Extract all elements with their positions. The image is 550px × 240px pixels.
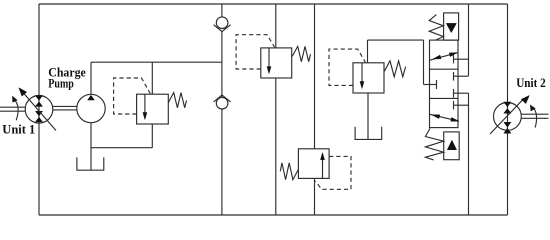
rotation arrow on Unit 1 shaft xyxy=(15,100,19,121)
wire: R4 inlet from DCV left port xyxy=(367,40,369,63)
svg-text:Unit 2: Unit 2 xyxy=(516,75,546,90)
spring of R1 xyxy=(168,93,186,108)
wire: charge pump outlet up xyxy=(90,62,92,94)
wire: R3 inlet from top loop line xyxy=(314,4,316,149)
pilot line of R1 (dashed) xyxy=(114,78,151,114)
DCV port T-stub S1 right xyxy=(453,55,455,64)
rotation arrow on Unit 2 shaft xyxy=(533,107,537,127)
wire: DCV port B down to bottom loop line xyxy=(468,93,470,215)
charge pump (fixed displacement) xyxy=(77,94,105,122)
pump/motor Unit 2 (variable displacement, on right loop line) xyxy=(494,103,522,131)
wire: main loop bottom line (return line) xyxy=(39,214,508,216)
DCV right port stub A xyxy=(453,72,455,81)
relief valve R4 body (shuttle relief) xyxy=(353,63,384,93)
spring of R2 xyxy=(292,46,310,61)
DCV bottom spring xyxy=(425,128,443,160)
spring of R4 xyxy=(384,61,405,77)
wire: charge line horizontal (pump outlet to check valves) xyxy=(91,61,222,63)
pilot line of R2 (dashed) xyxy=(236,35,275,69)
DCV position divider 2 xyxy=(430,97,459,99)
svg-text:Unit 1: Unit 1 xyxy=(2,122,35,137)
pump/motor Unit 1 (variable displacement, on left loop line) xyxy=(25,96,53,124)
wire: make-up check line vertical segments xyxy=(221,4,223,17)
relief valve R1 body (charge pump relief) xyxy=(137,94,169,124)
pilot line of R3 (dashed) xyxy=(315,156,351,189)
DCV body outline xyxy=(430,40,459,128)
wire: R4 outlet down to tank xyxy=(367,93,369,139)
tank T2 (R4 drain reservoir) xyxy=(355,127,382,140)
DCV position divider 1 xyxy=(430,68,459,70)
DCV top position flow arrow (double headed) xyxy=(430,53,458,61)
DCV top solenoid with down triangle xyxy=(444,13,459,40)
wire: relief R1 drain horizontal to suction xyxy=(91,147,152,149)
wire: R2 inlet from top loop line xyxy=(275,4,277,48)
relief valve R2 body (cross-port relief A) xyxy=(261,48,292,78)
wire: main loop right line (through Unit 2) xyxy=(507,4,509,215)
DCV right port stub B xyxy=(453,89,455,98)
shaft line of Unit 1 (double line to left edge) xyxy=(0,106,25,108)
check valve CV2 (to bottom loop line) xyxy=(216,97,228,109)
wire: main loop left line (through Unit 1) xyxy=(38,4,40,215)
check valve CV1 (to top loop line) xyxy=(216,17,228,29)
wire: R2 outlet to bottom loop line xyxy=(275,78,277,215)
relief valve R3 body (cross-port relief B) xyxy=(298,149,329,179)
svg-text:Pump: Pump xyxy=(48,75,74,90)
DCV bottom solenoid with up triangle xyxy=(444,132,460,160)
spring of R3 xyxy=(280,163,298,180)
wire: R1 outlet down xyxy=(151,124,153,148)
DCV top spring xyxy=(429,15,443,40)
wire: charge pump inlet down to tank xyxy=(90,123,92,170)
pilot line of R4 (dashed) xyxy=(329,49,365,85)
shaft between Unit 1 and charge pump (double line) xyxy=(53,105,77,107)
shaft line of Unit 2 (double line to right) xyxy=(521,113,548,115)
wire: DCV port A up to top loop line xyxy=(468,4,470,76)
DCV bottom position flow arrow (double headed) xyxy=(429,114,458,121)
tank T1 (charge pump suction reservoir) xyxy=(77,157,104,170)
DCV left port stub (P) xyxy=(424,84,437,86)
wire: main loop top line (high-pressure line) xyxy=(39,3,508,5)
wire: R1 inlet from charge line xyxy=(151,62,153,94)
DCV port T-stub S3 right xyxy=(453,101,455,110)
wire: R3 outlet to bottom loop line xyxy=(314,178,316,215)
